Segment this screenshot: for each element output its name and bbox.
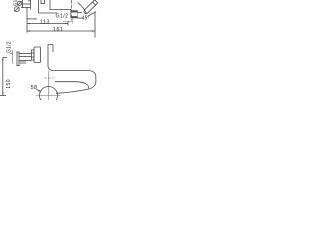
centerline horizontal dashes [44,77,54,79]
wire: pipe top edge [21,3,31,5]
wire: pipe bottom edge [21,7,31,9]
flange escutcheon [16,52,18,66]
pipe lines [19,53,32,55]
wire: block right upper edge [78,12,83,14]
dimension 161 [27,30,95,32]
svg-text:G1/2: G1/2 [56,14,69,20]
wire: body bottom edge [39,12,58,14]
svg-text:45°: 45° [82,16,90,22]
wire: pipe shadow band [19,61,26,63]
svg-text:113: 113 [40,19,50,25]
wire: body left edge [30,0,32,10]
wire: extension line from pipe down [26,8,28,33]
node: inlet circle B with slash [14,7,19,12]
spout outline [53,71,96,94]
svg-text:58: 58 [31,85,38,91]
wire: body step vertical [38,0,40,13]
wire: notch [41,0,45,4]
wire: body lower gray edge [63,21,73,23]
wire: centerline dashed [71,0,73,21]
svg-text:150: 150 [6,79,12,89]
wire: cover plate bottom edge [27,18,36,20]
centerline vertical [48,71,50,101]
node: inlet circle A with slash [17,1,21,5]
svg-text:G1/2: G1/2 [7,41,13,53]
wire: wall line [22,0,24,8]
arrowhead swing arc [85,12,87,14]
swing arc [78,3,87,14]
dimension 113 [27,23,68,25]
wire: handle front vertical [49,0,51,10]
svg-text:161: 161 [53,27,64,33]
nut [32,50,35,60]
wire: extension vertical at x72.5 [72,18,74,24]
riser bar [48,45,53,71]
wire: block right lower edge [78,17,83,19]
wire: handle bottom edge [50,9,72,11]
spout inner line [55,82,89,89]
lever rotated 45 [83,0,98,14]
valve body [34,47,41,63]
wire: top cap line [28,0,31,2]
outlet circle [40,87,58,105]
wire: leader cross line [88,12,96,17]
centerline horizontal through circle [36,95,61,97]
node: cartridge block [71,11,78,13]
dimension 150 [2,58,4,96]
wire: flange depth extension [12,50,14,64]
